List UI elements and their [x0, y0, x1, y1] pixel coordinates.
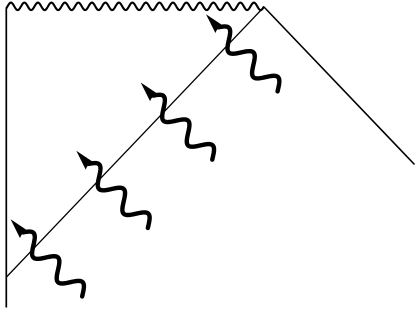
singularity (wavy top line) [6, 3, 264, 11]
photon P2 (Hawking radiation squiggle with arrow) [141, 83, 214, 160]
photon P4 (Hawking radiation squiggle with arrow) [11, 219, 84, 296]
photon P3 (Hawking radiation squiggle with arrow) [76, 151, 149, 228]
wire: null infinity diagonal [264, 7, 415, 165]
wire: event horizon diagonal [7, 7, 265, 277]
photon P1 (Hawking radiation squiggle with arrow) [206, 14, 279, 91]
wire: left vertical r=0 axis [5, 8, 7, 308]
